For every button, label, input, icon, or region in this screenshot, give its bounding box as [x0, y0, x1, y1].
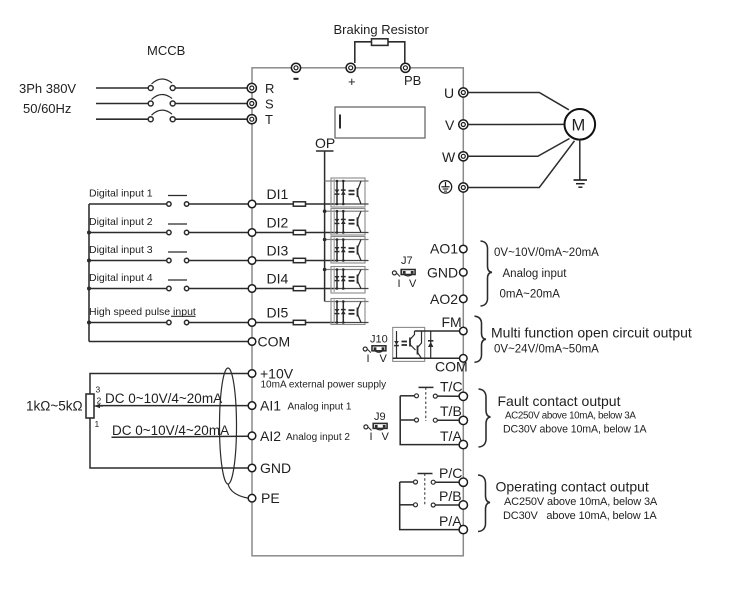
label Multi function open circuit output [491, 325, 692, 341]
label DC 0~10V/4~20mA upper [105, 391, 222, 406]
svg-text:V: V [382, 431, 390, 443]
svg-text:3: 3 [96, 385, 101, 395]
wire phase R right [175, 87, 247, 89]
wire U to motor [468, 93, 569, 110]
terminal plus [346, 63, 355, 72]
svg-text:GND: GND [260, 460, 291, 476]
optocoupler FM output [393, 327, 425, 361]
wire DI1 bus to switch [89, 203, 167, 205]
switch DI5 [167, 316, 196, 324]
label PA [439, 513, 462, 529]
inverter main box outline [252, 68, 463, 556]
relay T contact TC [400, 394, 459, 398]
svg-text:Fault contact output: Fault contact output [498, 393, 621, 409]
pot pin label 1 [95, 419, 100, 429]
label AI2 [260, 428, 281, 444]
terminal PA [459, 525, 467, 533]
label Braking Resistor [334, 22, 430, 37]
svg-text:PE: PE [261, 490, 280, 506]
label COM right [435, 359, 468, 375]
terminal DI1 [248, 200, 256, 208]
resistor DI3 input [293, 258, 305, 262]
jumper J9 [364, 423, 387, 430]
label PB [404, 73, 421, 88]
terminal AO1 [460, 245, 468, 253]
label AO2 [430, 291, 458, 307]
terminal PB [459, 501, 467, 509]
brace analog output [481, 241, 493, 306]
svg-text:Digital input 3: Digital input 3 [89, 244, 153, 256]
label U [444, 85, 454, 101]
svg-text:M: M [572, 117, 586, 135]
wire FM opto top rail [415, 330, 460, 332]
svg-text:0mA~20mA: 0mA~20mA [500, 289, 561, 301]
label PB [439, 488, 462, 504]
terminal AO2 [460, 295, 468, 303]
label +10V [260, 366, 294, 382]
resistor DI2 input [293, 230, 305, 234]
svg-text:3Ph 380V: 3Ph 380V [19, 81, 76, 96]
relay T mechanical link [419, 387, 434, 421]
display cursor bar [339, 115, 341, 129]
motor ground stem [579, 140, 581, 180]
svg-text:Analog input 1: Analog input 1 [288, 402, 352, 413]
terminal AI2 [248, 432, 256, 440]
relay P contact PC [400, 480, 460, 484]
label FM [442, 314, 462, 330]
svg-text:W: W [442, 149, 456, 165]
wire DI5 terminal to opto [256, 322, 337, 324]
wire DI1 switch to terminal [189, 203, 248, 205]
wire wiper to AI1 [100, 405, 248, 407]
label Analog input 1 [288, 402, 352, 413]
label Digital input 1 [89, 188, 153, 200]
label Digital input 2 [89, 216, 153, 228]
breaker pole S [148, 94, 175, 106]
label TC [440, 379, 463, 395]
relay P mechanical link [418, 474, 433, 506]
optocoupler DI5 [331, 299, 369, 325]
svg-text:FM: FM [442, 314, 462, 330]
terminal V [459, 120, 468, 129]
digital input common bus wire [88, 204, 90, 342]
wire phase T left [96, 118, 148, 120]
wire DI2 terminal to opto [256, 232, 337, 234]
label COM left [258, 334, 291, 350]
svg-text:I: I [398, 278, 401, 290]
label T [265, 112, 273, 127]
label 0V~24V/0mA~50mA [494, 344, 599, 356]
OP bus wire [324, 151, 326, 302]
label 50/60Hz [23, 101, 71, 116]
label J10 I V [367, 353, 388, 365]
wire phase R left [96, 87, 148, 89]
svg-text:Braking Resistor: Braking Resistor [334, 22, 430, 37]
wire DI5 bus to switch [89, 322, 167, 324]
label fault AC spec [505, 411, 636, 422]
svg-text:AO2: AO2 [430, 291, 458, 307]
label R [265, 81, 274, 96]
bus junction DI5 [87, 321, 91, 325]
svg-text:I: I [367, 353, 370, 365]
svg-text:U: U [444, 85, 454, 101]
svg-text:Multi function open circuit ou: Multi function open circuit output [491, 325, 692, 341]
terminal DI2 [248, 229, 256, 237]
label GND right [427, 264, 458, 280]
label PC [439, 465, 462, 481]
wire phase T right [175, 118, 247, 120]
terminal TB [459, 416, 467, 424]
optocoupler DI3 [331, 237, 369, 264]
flyback diode FM [428, 331, 433, 358]
switch DI1 [167, 196, 189, 207]
terminal PC [459, 478, 467, 486]
braking resistor body [372, 39, 389, 46]
svg-text:Analog input: Analog input [503, 268, 568, 280]
label DC 0~10V/4~20mA lower [112, 423, 229, 438]
terminal DI4 [248, 285, 256, 293]
bus junction DI3 [87, 259, 91, 263]
label minus [294, 78, 299, 80]
svg-text:DC 0~10V/4~20mA: DC 0~10V/4~20mA [112, 423, 229, 438]
svg-text:P/B: P/B [439, 488, 462, 504]
label AO1 [430, 241, 458, 257]
wire DI4 terminal to opto [256, 288, 337, 290]
svg-text:J9: J9 [374, 411, 386, 423]
pot wiper arrow [94, 404, 103, 409]
label J9 [374, 411, 386, 423]
pot pin label 2 [97, 396, 102, 406]
svg-text:10mA external power supply: 10mA external power supply [261, 380, 387, 391]
wire COM row [89, 341, 248, 343]
jumper J7 [392, 270, 415, 277]
terminal TC [459, 392, 467, 400]
svg-text:T/C: T/C [440, 379, 463, 395]
svg-text:Digital input 1: Digital input 1 [89, 188, 153, 200]
svg-text:DI3: DI3 [267, 243, 289, 259]
label J7 I V [398, 278, 418, 290]
label plus [348, 74, 356, 89]
label DI1 [267, 186, 289, 202]
wire pot to GND [90, 418, 248, 468]
label Analog input 2 [286, 432, 350, 443]
terminal S [247, 99, 256, 108]
wire DI2 bus to switch [89, 232, 167, 234]
wire DI3 bus to switch [89, 260, 167, 262]
terminal R [247, 83, 256, 92]
label Operating contact output [496, 479, 649, 495]
svg-text:AC250V above 10mA, below 3A: AC250V above 10mA, below 3A [504, 496, 658, 508]
svg-text:J7: J7 [401, 255, 413, 267]
svg-text:OP: OP [315, 135, 335, 151]
shield drain wire to PE [228, 484, 248, 498]
wire earth to motor [468, 141, 575, 188]
svg-text:50/60Hz: 50/60Hz [23, 101, 71, 116]
label J7 [401, 255, 413, 267]
resistor DI5 input [293, 320, 305, 324]
motor M1 [565, 109, 596, 140]
wire DI4 switch to terminal [189, 288, 248, 290]
optocoupler DI4 [331, 267, 369, 294]
svg-text:+: + [348, 74, 356, 89]
label Analog input [503, 268, 568, 280]
braking resistor loop wire [355, 42, 405, 63]
label TA [440, 428, 462, 444]
svg-text:P/A: P/A [439, 513, 462, 529]
svg-text:DC30V above 10mA, below 1A: DC30V above 10mA, below 1A [503, 424, 647, 436]
wire DI3 switch to terminal [189, 260, 248, 262]
label OP [315, 135, 335, 151]
svg-text:V: V [380, 353, 388, 365]
pot pin label 3 [96, 385, 101, 395]
svg-text:AI1: AI1 [260, 398, 281, 414]
terminal AI1 [248, 402, 256, 410]
bus junction DI2 [87, 231, 91, 235]
label 0mA~20mA [500, 289, 561, 301]
svg-text:1kΩ~5kΩ: 1kΩ~5kΩ [26, 399, 83, 414]
svg-text:V: V [445, 117, 455, 133]
terminal GND left [248, 464, 256, 472]
svg-text:1: 1 [95, 419, 100, 429]
relay P common wire [400, 482, 460, 530]
terminal W [459, 152, 468, 161]
svg-text:T: T [265, 112, 273, 127]
label Fault contact output [498, 393, 621, 409]
wire AI2 input [112, 436, 249, 437]
label DI5 [267, 305, 289, 321]
OP branch to DI3 opto [323, 238, 332, 242]
label 10mA external power supply [261, 380, 387, 391]
svg-text:COM: COM [258, 334, 291, 350]
label Digital input 3 [89, 244, 153, 256]
terminal COM right [460, 355, 468, 363]
terminal FM [460, 327, 468, 335]
wire V to motor [468, 123, 565, 125]
OP branch to DI4 opto [323, 268, 332, 272]
svg-text:DC 0~10V/4~20mA: DC 0~10V/4~20mA [105, 391, 222, 406]
jumper J10 [363, 346, 386, 353]
svg-text:T/B: T/B [440, 403, 462, 419]
svg-text:GND: GND [427, 264, 458, 280]
label DI4 [267, 271, 289, 287]
wire phase S left [96, 103, 148, 105]
brace operating contact output [478, 475, 490, 532]
wire W to motor [468, 139, 570, 157]
breaker pole R [148, 79, 175, 91]
terminal TA [459, 440, 467, 448]
svg-text:DI5: DI5 [267, 305, 289, 321]
svg-text:PB: PB [404, 73, 421, 88]
svg-text:T/A: T/A [440, 428, 462, 444]
wire FM opto bottom rail [393, 357, 460, 359]
svg-text:DI1: DI1 [267, 186, 289, 202]
relay T common wire [400, 396, 459, 445]
terminal +10V [248, 370, 256, 378]
svg-text:Analog input 2: Analog input 2 [286, 432, 350, 443]
label DI2 [267, 215, 289, 231]
OP connector bar [316, 150, 334, 152]
label fault DC spec [503, 424, 647, 436]
label DI3 [267, 243, 289, 259]
svg-text:Digital input 4: Digital input 4 [89, 272, 153, 284]
label GND left [260, 460, 291, 476]
svg-text:COM: COM [435, 359, 468, 375]
OP branch to DI2 opto [323, 209, 332, 213]
resistor DI4 input [293, 286, 305, 290]
svg-text:DI4: DI4 [267, 271, 289, 287]
label MCCB [147, 43, 185, 58]
label 0V~10V/0mA~20mA [494, 247, 599, 259]
terminal T [247, 115, 256, 124]
switch DI4 [167, 280, 189, 291]
terminal PB [401, 63, 410, 72]
label operating AC spec [504, 496, 658, 508]
optocoupler DI2 [331, 209, 369, 236]
svg-text:Operating contact output: Operating contact output [496, 479, 649, 495]
label operating DC spec [503, 510, 657, 522]
svg-text:S: S [265, 97, 274, 112]
label High speed pulse input [89, 306, 196, 318]
switch DI3 [167, 252, 189, 263]
ground symbol under motor [574, 180, 588, 187]
brace multi function output [475, 316, 487, 362]
svg-text:R: R [265, 81, 274, 96]
terminal DI3 [248, 257, 256, 265]
cable shield ellipse [220, 368, 237, 484]
terminal earth right edge [459, 183, 468, 192]
label W [442, 149, 456, 165]
svg-text:DI2: DI2 [267, 215, 289, 231]
wire DI3 terminal to opto [256, 260, 337, 262]
potentiometer RP [86, 394, 94, 418]
svg-text:J10: J10 [370, 334, 388, 346]
svg-text:AC250V above 10mA, below 3A: AC250V above 10mA, below 3A [505, 411, 636, 422]
terminal U [459, 88, 468, 97]
label J10 [370, 334, 388, 346]
label 3Ph 380V [19, 81, 76, 96]
relay P contact PB [400, 503, 460, 507]
svg-text:AO1: AO1 [430, 241, 458, 257]
label PE [261, 490, 280, 506]
optocoupler DI1 [331, 178, 369, 207]
svg-text:0V~10V/0mA~20mA: 0V~10V/0mA~20mA [494, 247, 599, 259]
protective earth symbol circle [439, 181, 451, 193]
relay T contact TB [400, 418, 459, 422]
wire DI2 switch to terminal [189, 232, 248, 234]
wire +10V to potentiometer [90, 374, 248, 395]
svg-text:P/C: P/C [439, 465, 462, 481]
svg-text:MCCB: MCCB [147, 43, 185, 58]
bus junction DI4 [87, 287, 91, 291]
svg-text:2: 2 [97, 396, 102, 406]
switch DI2 [167, 224, 189, 235]
wire DI4 bus to switch [89, 288, 167, 290]
svg-text:I: I [370, 431, 373, 443]
label S [265, 97, 274, 112]
label TB [440, 403, 462, 419]
OP branch to DI5 opto [325, 301, 332, 303]
OP branch to DI1 opto [325, 180, 332, 182]
label J9 I V [370, 431, 390, 443]
label 1kohm-5kohm [26, 399, 83, 414]
terminal PE [248, 494, 256, 502]
terminal DI5 [248, 319, 256, 327]
terminal GND right [460, 269, 468, 277]
terminal COM left [248, 338, 256, 346]
svg-text:Digital input 2: Digital input 2 [89, 216, 153, 228]
keypad display box [335, 107, 425, 138]
label Digital input 4 [89, 272, 153, 284]
svg-text:DC30V above 10mA, below 1A: DC30V above 10mA, below 1A [503, 510, 657, 522]
svg-text:V: V [409, 278, 417, 290]
label AI1 [260, 398, 281, 414]
wire phase S right [175, 103, 247, 105]
breaker pole T [148, 110, 175, 122]
terminal minus [291, 63, 300, 72]
wire DI1 terminal to opto [256, 203, 337, 205]
label V [445, 117, 455, 133]
svg-text:AI2: AI2 [260, 428, 281, 444]
svg-text:0V~24V/0mA~50mA: 0V~24V/0mA~50mA [494, 344, 599, 356]
wire DI5 switch to terminal [189, 322, 248, 324]
resistor DI1 input [293, 202, 305, 206]
brace fault contact output [479, 389, 491, 447]
